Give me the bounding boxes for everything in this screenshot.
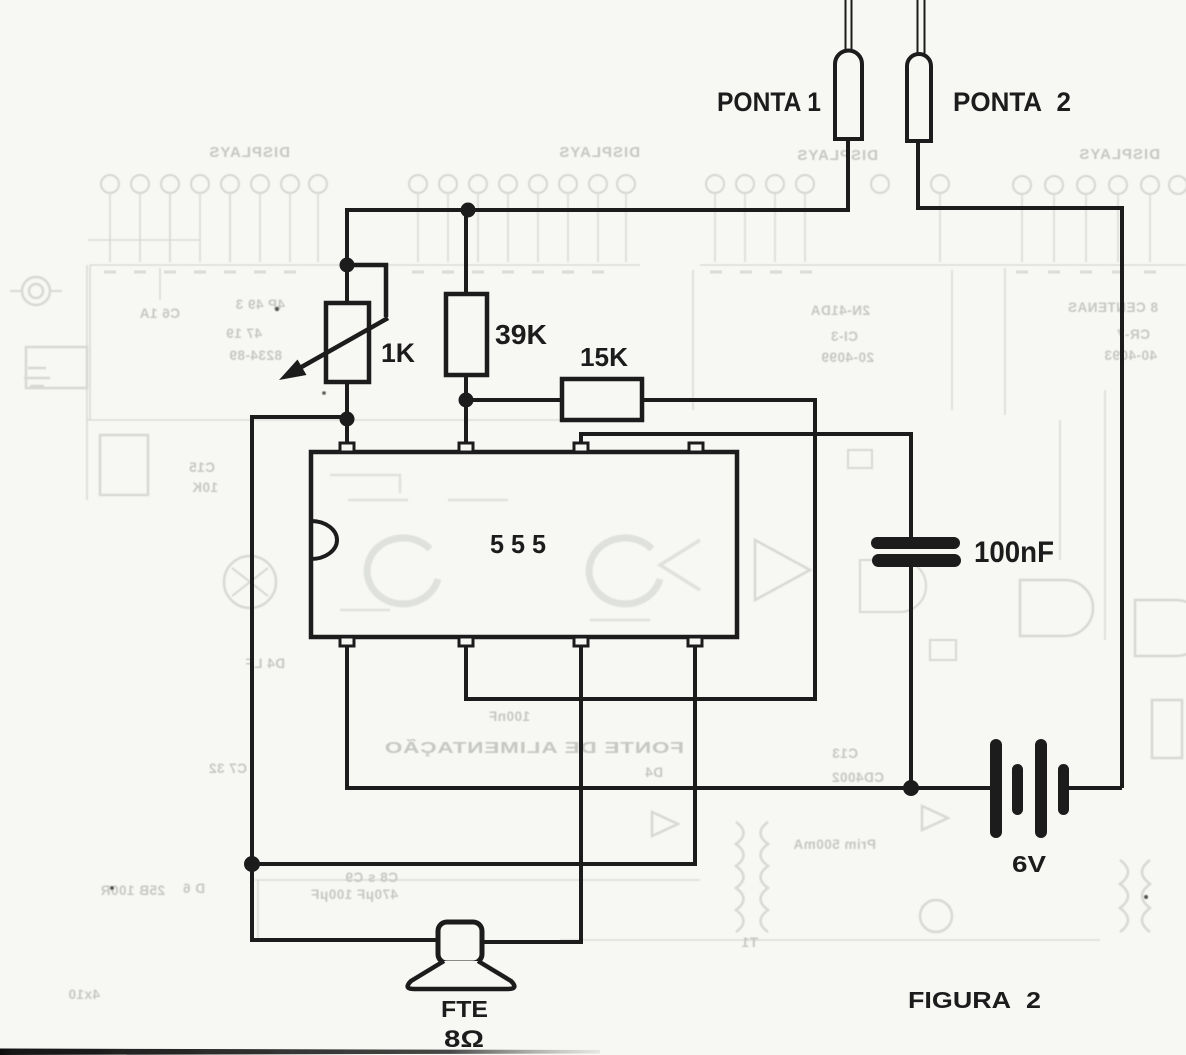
node junction pot bottom / left rail / pin top <box>340 412 355 427</box>
svg-text:8234-89: 8234-89 <box>229 348 282 363</box>
probe P1 lead wires <box>846 0 852 52</box>
wire 15K right around IC to pin2 bottom <box>466 400 815 699</box>
svg-text:8Ω: 8Ω <box>444 1026 484 1053</box>
svg-text:5 5 5: 5 5 5 <box>490 529 546 559</box>
pot wiper diagonal arrow shaft <box>298 318 388 369</box>
pin stub top 2 <box>459 443 473 452</box>
speaker cone <box>408 961 515 989</box>
wire: probe1 down, top rail, down to pot <box>347 139 848 265</box>
battery 6V short plate right <box>1058 764 1069 815</box>
pin stub bottom 3 <box>574 637 588 646</box>
svg-text:C15: C15 <box>189 460 215 475</box>
svg-text:2N-41DA: 2N-41DA <box>810 303 870 318</box>
svg-text:FIGURA 2: FIGURA 2 <box>908 987 1041 1013</box>
svg-text:D4: D4 <box>645 765 663 780</box>
speaker FTE 8ohm body <box>438 922 482 963</box>
svg-text:470μF 100μF: 470μF 100μF <box>311 887 398 902</box>
svg-text:47 19: 47 19 <box>226 326 262 341</box>
svg-text:D 6: D 6 <box>182 881 205 896</box>
battery 6V long plate right <box>1035 739 1047 838</box>
svg-text:Prim 500mA: Prim 500mA <box>793 837 876 852</box>
IC notch <box>311 521 337 559</box>
wire battery right to probe2 rail <box>1069 786 1122 790</box>
svg-text:PONTA 1: PONTA 1 <box>717 87 821 117</box>
wire pot wiper loop <box>347 265 386 317</box>
svg-text:CI-3: CI-3 <box>830 329 858 344</box>
resistor 39K body <box>446 294 487 375</box>
pin stub top 4 <box>689 443 703 452</box>
battery 6V long plate left <box>990 739 1002 838</box>
svg-text:T1: T1 <box>741 935 758 950</box>
pin stub top 3 <box>574 443 588 452</box>
battery 6V short plate left <box>1012 764 1023 815</box>
svg-text:39K: 39K <box>495 319 547 350</box>
node junction pot wiper <box>340 258 355 273</box>
wire pin3 bottom to speaker <box>482 645 581 942</box>
svg-text:15K: 15K <box>580 342 628 372</box>
svg-text:6V: 6V <box>1012 851 1047 877</box>
potentiometer 1K body <box>326 303 369 382</box>
wire to 15K <box>466 398 562 402</box>
wire pin4 bottom to left rail <box>252 645 695 864</box>
svg-text:1K: 1K <box>381 338 415 368</box>
svg-text:20-4099: 20-4099 <box>821 350 874 365</box>
probe P1 (PONTA 1) body <box>835 51 862 140</box>
svg-text:C8 s C9: C8 s C9 <box>345 870 398 885</box>
svg-text:C6 1A: C6 1A <box>139 306 180 321</box>
svg-text:8 CENTENAS: 8 CENTENAS <box>1067 300 1158 315</box>
svg-text:DISPLAYS: DISPLAYS <box>208 144 290 161</box>
svg-text:100nF: 100nF <box>488 709 530 724</box>
svg-text:25B 100R: 25B 100R <box>100 883 165 898</box>
svg-text:DISPLAYS: DISPLAYS <box>796 147 878 164</box>
svg-text:10K: 10K <box>192 480 218 495</box>
svg-text:C7 32: C7 32 <box>208 761 247 776</box>
ghost bleed-through inside IC <box>330 475 700 620</box>
IC 555 body <box>311 452 737 637</box>
wire pin1 top <box>345 419 349 446</box>
svg-text:DISPLAYS: DISPLAYS <box>558 144 640 161</box>
node junction 39K / 15K / pin2 <box>459 393 474 408</box>
wire 39K branch from rail <box>464 210 468 294</box>
wire pot top lead <box>345 265 349 303</box>
capacitor 100nF top plate <box>871 537 960 549</box>
wire 39K bottom <box>464 375 468 446</box>
svg-text:CD4002: CD4002 <box>831 770 884 785</box>
svg-text:PONTA 2: PONTA 2 <box>953 87 1071 117</box>
svg-text:100nF: 100nF <box>974 536 1054 569</box>
svg-text:40-4093: 40-4093 <box>1104 348 1157 363</box>
node junction top rail / 39K branch <box>461 203 476 218</box>
pin stub bottom 2 <box>459 637 473 646</box>
svg-text:FTE: FTE <box>441 996 488 1022</box>
node junction left rail / pin4 return <box>244 856 260 872</box>
wire capacitor bottom <box>909 566 913 788</box>
wire pin3 top to capacitor <box>581 434 911 537</box>
capacitor 100nF bottom plate <box>872 554 961 567</box>
resistor 15K body <box>562 379 642 420</box>
wire pot bottom to junction <box>345 382 349 419</box>
pin stub bottom 4 <box>688 637 702 646</box>
wire pin1 bottom to battery rail <box>347 645 991 788</box>
wire probe2 down and right rail to battery <box>918 141 1122 788</box>
svg-text:4x10: 4x10 <box>68 987 100 1002</box>
svg-text:FONTE DE ALIMENTAÇÃO: FONTE DE ALIMENTAÇÃO <box>384 739 684 757</box>
probe P2 (PONTA 2) body <box>907 54 931 141</box>
pin stub top 1 <box>340 443 354 452</box>
pot wiper arrowhead <box>279 360 307 381</box>
svg-text:DISPLAYS: DISPLAYS <box>1078 146 1160 163</box>
wire left rail to speaker <box>252 417 438 940</box>
probe P2 lead wires <box>918 0 925 55</box>
pin stub bottom 1 <box>340 637 354 646</box>
svg-text:C13: C13 <box>832 746 858 761</box>
node junction capacitor / battery rail <box>903 780 919 796</box>
